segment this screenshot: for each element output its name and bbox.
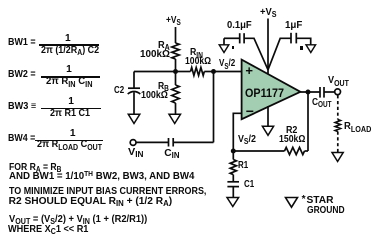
capacitor 1uF	[291, 33, 296, 44]
wire R1 to C1	[232, 175, 234, 182]
wire RB to ground	[175, 103, 177, 114]
capacitor C2	[128, 88, 141, 94]
label CIN	[164, 149, 179, 159]
note: AND BW1	[9, 172, 194, 183]
label R2	[286, 126, 297, 136]
label RA	[158, 41, 170, 51]
terminal VOUT	[335, 89, 341, 95]
label op-amp - pin	[246, 106, 254, 116]
node A junction dot	[173, 69, 178, 74]
node B junction dot	[211, 69, 216, 74]
ground (R1 C1)	[227, 198, 239, 207]
label C2	[114, 86, 124, 96]
equation BW1	[8, 38, 36, 48]
wire 0.1uF right diagonal to supply point	[244, 38, 268, 70]
equation BW2	[8, 70, 36, 80]
ground (star-ground legend symbol)	[286, 198, 298, 208]
resistor RB	[172, 85, 179, 103]
wire dashed VOUT to RLOAD	[337, 95, 339, 119]
capacitor C1	[227, 182, 239, 187]
label RLOAD	[344, 122, 371, 132]
wire node B to op-amp + input	[214, 71, 242, 73]
label op-amp + pin	[245, 66, 253, 76]
resistor RA	[172, 43, 179, 59]
label +Vs (left rail)	[166, 16, 181, 26]
wire R2 to feedback node	[305, 150, 309, 152]
label R2 value 150k	[279, 135, 305, 145]
resistor R2	[285, 147, 305, 154]
wire dashed RLOAD to ground	[337, 132, 339, 153]
ground (op-amp V-)	[262, 126, 273, 135]
wire node A to C2 branch	[134, 71, 176, 73]
wire C1 to ground	[232, 187, 234, 198]
note: VOUT equation	[9, 215, 147, 225]
label RA value 100k	[140, 50, 170, 60]
wire COUT to VOUT terminal	[324, 91, 335, 93]
capacitor 0.1uF	[240, 33, 244, 43]
ground (C2)	[128, 114, 140, 123]
node OUT junction dot	[306, 90, 311, 95]
label RIN	[190, 48, 203, 58]
label 1uF	[285, 21, 302, 31]
wire VIN to CIN	[136, 141, 168, 143]
label star mark (1uF ground)	[300, 46, 303, 49]
wire 0.1uF ground stub	[223, 38, 225, 45]
node C junction dot	[231, 149, 236, 154]
label R1	[238, 161, 248, 171]
note: R2 SHOULD EQUAL	[9, 197, 173, 207]
label RB value 100k	[141, 91, 168, 101]
wire 0.1uF left	[224, 37, 240, 39]
star ground (1uF)	[306, 45, 316, 53]
note: FOR RA = RB	[9, 163, 61, 173]
wire node A to RIN	[176, 71, 191, 73]
resistor R1	[230, 160, 236, 175]
label C1	[244, 180, 254, 190]
wire op-amp output	[300, 91, 320, 93]
label Vs/2 (+ input)	[219, 59, 235, 69]
wire C2 branch down	[133, 72, 135, 89]
equation BW3	[8, 102, 36, 112]
wire op-amp V- pin to ground	[267, 106, 269, 126]
label +Vs (op-amp supply)	[260, 8, 276, 18]
label Vs/2 (- input)	[238, 135, 256, 145]
wire C2 to ground	[133, 93, 135, 115]
wire node C to R1	[232, 151, 234, 160]
label star mark (0.1uF ground)	[232, 46, 235, 49]
terminal VIN	[130, 140, 136, 146]
wire +Vs vertical	[267, 19, 269, 74]
note: TO MINIMIZE	[9, 187, 206, 197]
label RB	[158, 82, 169, 92]
wire RA to node A	[175, 59, 177, 72]
label VIN	[128, 148, 144, 158]
wire 1uF left diagonal to supply point	[268, 38, 291, 70]
label star ground legend	[302, 195, 306, 205]
wire feedback from output node down	[307, 92, 309, 151]
label 0.1uF	[227, 21, 252, 31]
ground (RLOAD)	[332, 153, 343, 162]
wire CIN to node B riser	[173, 141, 213, 143]
resistor RLOAD	[335, 120, 340, 132]
equation BW4	[8, 134, 35, 144]
wire op-amp - input	[233, 113, 241, 151]
label RIN value 100k	[185, 57, 211, 67]
wire 1uF right	[296, 38, 310, 45]
label COUT	[312, 98, 332, 108]
note: WHERE	[8, 225, 88, 235]
capacitor COUT	[320, 87, 324, 98]
wire +Vs rail to RA	[175, 27, 177, 43]
op-amp U1 OP1177	[242, 60, 301, 120]
resistor RIN	[191, 68, 205, 76]
wire node C to R2	[233, 150, 284, 152]
wire RIN to node B	[204, 71, 213, 73]
ground (RB)	[169, 114, 181, 123]
wire node A to RB	[175, 72, 177, 86]
capacitor CIN	[169, 138, 174, 147]
label op-amp name OP1177	[245, 87, 284, 99]
label VOUT	[328, 76, 349, 86]
star ground (0.1uF)	[219, 45, 229, 53]
wire node B down to CIN line	[213, 72, 215, 143]
